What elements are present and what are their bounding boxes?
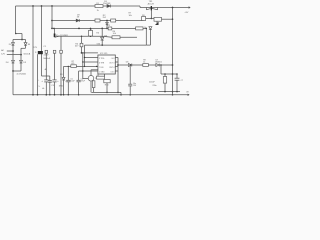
wire top rail right [140,7,190,9]
node pin2 [84,57,85,58]
wire V172 [172,8,174,95]
node V107 top [106,20,108,22]
node C7 bus2 [176,91,178,93]
svg-text:R8: R8 [97,75,99,77]
node rail V636 [63,94,65,96]
node V172 bus2 [172,91,174,93]
node TR1 base [151,18,153,20]
node R11 bus [106,92,108,94]
node D7 out [160,64,162,66]
wire rail20 [52,20,144,22]
svg-text:100uF: 100uF [149,82,155,84]
wire rail53 [82,52,98,54]
wire jog45 [146,44,150,46]
wire bridge bottom bar [13,70,21,72]
node R4 top [81,35,83,37]
node AC1 junction [12,50,14,52]
wire rail45 [85,44,147,46]
node rail53 v825 [82,52,83,53]
wire R11 bottom [106,83,108,93]
resistor R2b [111,19,116,22]
node top rail V41 [41,5,43,7]
capacitor C7 [175,78,180,80]
resistor R11 [104,80,110,83]
wire bridge right leg upper [25,40,27,43]
node rail53 v845 [84,52,85,53]
wire pin8 stub [115,57,118,59]
wire V41 [41,6,43,76]
wire V683 upper [67,66,69,80]
node R12 bus2 [164,91,166,93]
node rail V33 [32,94,34,96]
wire bridge right jog2 [21,47,26,49]
wire cluster link right [162,18,173,20]
wire R10 pin stub [104,74,106,76]
node V172 rail [172,94,174,96]
svg-text:10k: 10k [113,33,116,35]
wire V161 drop [160,65,162,74]
wire AC2 [7,54,21,56]
wire D4 to bottom bar [12,63,14,71]
svg-text:CV 5: CV 5 [110,71,114,73]
node rail28 zener [101,28,103,30]
node pin7 ic edge [96,66,97,67]
wire V54 lower [54,82,56,95]
node bridge bottom [12,70,14,72]
wire bridge right jog [25,45,27,48]
svg-text:1k: 1k [144,27,146,29]
wire V46 upper [45,53,47,80]
wire cluster bus [146,17,154,19]
svg-text:220n: 220n [152,85,156,87]
diode D5 [107,5,110,8]
resistor R2a [95,19,100,22]
svg-text:500mA: 500mA [24,52,31,55]
node rail V786 [78,94,80,96]
wire V46 lower [45,82,47,95]
capacitor C3 [52,80,56,82]
wire rail28 [52,27,146,29]
wire V828 [82,53,84,79]
diode D1 [24,43,27,46]
resistor TR2 emitter box [92,81,95,88]
wire zener top [101,28,103,37]
wire V786 lower [78,82,80,95]
capacitor C4 [48,80,52,82]
wire D3 to bottom bar [20,63,22,71]
node AC2 junction [20,54,22,56]
transistor TR2 [88,76,94,82]
svg-text:5600uF: 5600uF [43,58,51,60]
capacitor C5 [66,80,70,82]
svg-text:1N4148: 1N4148 [103,3,111,5]
svg-text:1N41: 1N41 [59,85,64,87]
wire pin5 stub [115,70,118,72]
wire left drop from rail [15,6,17,34]
wire V61 upper [60,36,62,50]
node rail V37 [37,94,39,96]
node pin7 v845 [84,66,85,67]
node jog [15,33,17,35]
svg-text:1N4001: 1N4001 [155,62,163,64]
resistor R6 [112,36,120,39]
wire V498 upper [49,76,51,80]
wire local bus drop [120,92,122,94]
wire V636 lower [63,80,65,95]
svg-text:OUT 3: OUT 3 [109,62,114,64]
wire local bus [91,91,121,93]
svg-text:AC128: AC128 [148,2,155,5]
zener ZD1 [101,37,104,40]
wire V1463 [145,28,147,45]
wire S1a drop [53,28,55,33]
node rail V46 [45,94,47,96]
resistor R4 [80,43,83,47]
svg-text:A-: A- [42,87,44,90]
svg-text:1 GND: 1 GND [99,71,105,73]
wire V118 [117,58,119,93]
wire V54 upper [54,53,56,80]
wire zener bottom [101,40,103,45]
node V107 bottom [106,28,108,30]
wire C7 bottom [176,80,178,91]
svg-text:47k: 47k [71,63,74,65]
diode D4 [12,60,15,63]
wire bridge left leg mid [12,45,14,60]
node V1463 r28 [146,28,148,30]
op-amp IC1 555 timer [98,55,115,74]
wire V636 upper [63,66,65,77]
wire jog down [21,34,23,40]
node V118 bus [117,92,119,94]
capacitor C8 [128,84,132,86]
wire V1504 [149,30,151,45]
wire D6 drop upper [129,65,131,84]
wire R4 bottom [81,47,83,53]
wire pin6 line [83,61,98,63]
preset RV1 box L [142,17,146,21]
resistor cluster C [136,27,143,30]
arrow top rail end [189,6,191,8]
svg-text:+V 8: +V 8 [111,58,115,60]
capacitor C6 [77,80,81,82]
arrow ground rail end [188,94,190,96]
node rail V498 [49,94,51,96]
node S1a tap [53,28,55,30]
diode D2 [12,43,15,46]
node rail28 b [78,28,80,30]
wire R4 top [81,36,83,43]
wire V41 jog [42,75,50,77]
wire rail37 [102,36,112,37]
node V118 out [117,64,119,66]
preset wiper blob [155,22,159,25]
svg-text:1k: 1k [97,10,99,12]
switch S1a lever [55,36,59,37]
svg-text:2 TRG: 2 TRG [99,58,105,60]
switch S1b [38,51,43,54]
node pin1 [82,70,83,71]
node bus drop rail [120,94,122,96]
wire bridge to ground rail [12,71,14,95]
resistor R7b [71,65,77,68]
wire TR2 collector link [91,69,98,71]
wire ground rail [13,94,189,96]
node pin6 [82,61,83,62]
wire V107 divider [106,21,108,29]
node rail53 start [81,52,83,54]
svg-text:+9V: +9V [184,12,188,14]
transistor TR1 [146,8,157,10]
wire bridge right leg mid [20,48,22,60]
node V52 r28 [51,28,53,30]
node top rail right [172,7,174,9]
wire V683 lower [67,82,69,95]
diode D3 [20,60,23,63]
wire pin2 line [85,57,98,59]
wire bridge top bar [13,39,26,41]
wire V786 upper [78,71,80,80]
wire V37 [37,54,39,95]
wire pin3 stub [115,61,118,63]
node pin7 c5 [68,66,69,67]
wire rail37 right [120,36,137,38]
wire TR2 emitter [90,81,92,92]
node V90 top [90,28,92,30]
wire V90 upper [90,28,92,30]
node box90 bottom [90,35,92,37]
node top rail V52 [51,5,53,7]
node rail V61 [60,94,62,96]
wire top rail step [139,6,141,8]
resistor R12 [163,77,166,84]
wire V61 lower [60,53,62,95]
svg-text:IC1 555: IC1 555 [100,53,108,55]
wire pin1 line [83,70,98,72]
node rail V54 [54,94,56,96]
svg-text:A-: A- [45,68,47,71]
wire R12 top [164,74,166,77]
svg-text:1k: 1k [143,62,145,64]
wire V33 [32,6,34,95]
wire D6 drop lower [129,86,131,95]
wire V845 [84,45,86,66]
svg-text:2k: 2k [90,29,92,31]
svg-text:AC: AC [1,49,4,52]
svg-text:4x 1N4001: 4x 1N4001 [17,74,28,76]
capacitor C2 [44,80,48,82]
diode D6 [128,64,131,67]
wire TR2 ebox drop [93,88,95,93]
node rail V683 [68,94,70,96]
node C8 rail [129,94,131,96]
resistor R3 [88,31,92,37]
wire C7 top [176,74,178,78]
diode divider [106,22,109,24]
wire bus2 [158,91,180,93]
connector pin C [60,50,63,53]
resistor R1 [95,5,103,8]
svg-text:6 THR: 6 THR [99,62,105,64]
node V172 link [172,18,174,20]
node V172 node74 [172,73,174,75]
wire pin1 ext [79,70,83,72]
connector pin A [45,50,48,53]
node D6 drop [129,64,131,66]
wire TR1 base [150,10,152,18]
wire top rail left [16,5,141,7]
node bridge top [21,39,23,41]
wire pin7 line [64,65,98,67]
wire jog horiz [16,33,23,35]
svg-text:12V: 12V [1,53,5,55]
diode cluster D [149,27,152,30]
wire R12 bottom [164,83,166,92]
connector pin B [53,50,56,53]
wire bridge left leg upper [12,40,14,43]
node V52 r20 [51,20,53,22]
diode D9 [62,77,65,80]
wire node74 line [161,73,178,75]
node out to V172 [172,64,174,66]
wire V498 lower [49,82,51,95]
resistor R9 [143,64,149,67]
resistor R10 [97,76,105,79]
wire out line [118,64,173,66]
node zener rail45 [101,44,103,46]
wire V157 cluster [156,21,158,25]
node R12 tap [164,73,166,75]
diode D7 [156,64,159,67]
node C7 tap [176,73,178,75]
wire TR2 base [83,78,88,80]
preset RV1 box R [154,17,162,21]
wire rail36 [59,35,103,37]
svg-text:RST 4: RST 4 [109,67,114,69]
wire TR2 collector up [90,70,92,76]
wire pin4 stub [115,65,118,67]
node top rail V33 [32,5,34,7]
wire AC1 [7,50,13,52]
resistor R5 [108,27,112,30]
diode D8 [76,19,79,22]
wire V52 [51,6,53,28]
switch S1a contact [54,34,56,38]
